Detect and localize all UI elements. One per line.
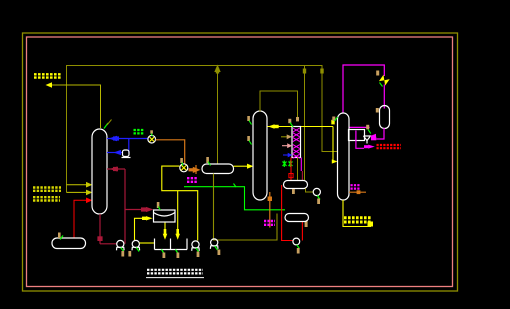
pump P2 (lean liquor pump)	[180, 164, 188, 172]
wire: yellow pump Pb discharge to E1	[135, 218, 147, 240]
text: rich liquor label (magenta)	[351, 185, 361, 188]
wire: olive from coil bottom to drum D2	[297, 158, 299, 181]
tick green on C1 top	[104, 123, 108, 129]
wire: red riser pump P6 to drum D3	[301, 222, 303, 241]
coil condenser (vertical with magenta coil)	[292, 127, 301, 158]
pump P3	[192, 241, 200, 251]
wire: crimson tap to reboiler E1	[125, 209, 147, 211]
wire: yellow loop E1/tank area	[162, 166, 198, 240]
wire: yellow reflux into C2	[268, 126, 334, 128]
valve crimson square	[97, 236, 102, 241]
tick green under tank 2	[176, 250, 179, 254]
wire: orange rich liquor out of C3	[349, 191, 366, 193]
exchanger E2 (horizontal drum)	[202, 164, 234, 174]
tick green on E2 top	[208, 162, 211, 166]
wire: red feed line into C1	[74, 200, 87, 238]
wire: yellow off-gas line from column C1 top	[52, 85, 101, 128]
tick tan coil top left	[288, 119, 291, 123]
tick on olive header x322	[320, 69, 323, 74]
tick tan on C2 left upper	[247, 116, 250, 121]
tick tan on D1	[58, 233, 61, 239]
wire: magenta from C3 to E3	[349, 126, 370, 128]
outer olive border frame	[23, 33, 458, 291]
wire: blue into seal pot	[107, 152, 122, 154]
arrow pink into coil left	[282, 145, 288, 147]
valve yellow bowtie	[379, 75, 390, 86]
wire: yellow feed line 1 into C1	[67, 184, 87, 186]
text: title (white, underlined)	[147, 270, 203, 274]
text: to hot water tank (yellow, bold)	[344, 218, 371, 222]
inner pink border frame	[27, 37, 453, 287]
wire: crimson drain from C1 bottom	[99, 214, 101, 244]
wire: crimson down leg	[124, 169, 126, 244]
text: feed gas label line1 (yellow)	[33, 188, 61, 201]
drum D2 (reflux drum)	[284, 181, 308, 189]
tick on olive header x217	[216, 69, 219, 74]
arrow tan into coil left	[281, 136, 287, 138]
text: product label (red)	[377, 145, 402, 148]
pump P5	[313, 188, 320, 195]
wire: blue cooling water to C1 top	[107, 138, 148, 140]
wire: yellow feed line 2 into C1	[67, 191, 87, 193]
tick green on E1	[158, 207, 160, 211]
tick green on E2 right	[234, 184, 237, 188]
pump Pb	[132, 240, 140, 250]
wire: crimson into drum D2	[301, 171, 303, 180]
wire: magenta valve to vessel V2	[383, 85, 385, 109]
wire: yellow Pb to tank	[140, 242, 155, 244]
tank (three compartment)	[155, 239, 188, 250]
arrow left off-gas	[46, 82, 53, 88]
tick tan on C2 left lower	[247, 136, 250, 141]
wire: yellow drop 2 into tank	[177, 191, 179, 234]
wire: blue drop	[128, 139, 130, 153]
wire: olive drop to exchanger E2	[217, 66, 219, 165]
wire: magenta from coil bottom	[300, 158, 302, 172]
wire: green acid line	[184, 187, 285, 210]
tick tan C3 top	[332, 117, 335, 122]
arrow magenta left into funnel	[370, 134, 376, 139]
exchanger E1 (kettle reboiler)	[154, 210, 176, 222]
wire: olive drop at x304 to drum D2	[304, 66, 306, 181]
wire: yellow drop 1 from E1 bottom	[164, 222, 166, 234]
text: lean liquor label (magenta)	[187, 178, 198, 182]
wire: crimson return from C1 mid	[107, 168, 125, 170]
tick on olive header x304	[303, 69, 306, 74]
tick tan on D3 right	[305, 221, 308, 227]
exchanger E3 (crystallizer box)	[349, 130, 365, 141]
valve green X pair	[283, 161, 293, 168]
wire: orange drain from C2 bottom	[269, 192, 271, 228]
seal pot V1	[122, 150, 131, 158]
tick olive on C1 top	[107, 120, 112, 126]
wire: crimson to pump Pa	[100, 243, 117, 245]
tick green under tank 1	[162, 250, 165, 254]
tick tan on E1	[157, 202, 160, 208]
wire: orange from P2y to pump P2	[156, 140, 185, 164]
wire: yellow C3 bottom outlet	[343, 200, 371, 227]
vessel V2 (small separator)	[380, 106, 390, 129]
pump P6	[293, 238, 300, 245]
text: cooling water label (green)	[134, 130, 145, 133]
arrow up on olive drop	[214, 65, 220, 73]
wire: magenta big loop C3 top	[343, 65, 384, 114]
tick green on D1	[60, 236, 63, 240]
wire: yellow drop to column C3	[332, 127, 333, 162]
wire: olive D2 to pump P5	[306, 189, 314, 193]
drum D3 (lower drum)	[285, 214, 309, 222]
wire: yellow E2 outlet to column C2	[234, 165, 248, 167]
valve orange between P2 and E2	[193, 167, 201, 173]
funnel (white)	[364, 136, 371, 144]
column C1 (absorber)	[92, 129, 107, 214]
tick tan on E2 top	[206, 157, 209, 163]
wire: olive loop E2 to bottom and up	[214, 174, 278, 241]
text: off-gas label (yellow)	[34, 74, 62, 77]
drum D1 (left horizontal tank)	[52, 238, 86, 249]
wire: red from coil bottom to drum D2	[290, 158, 292, 181]
column C2 (regenerator)	[253, 111, 267, 200]
wire: olive C2 top to coil condenser	[260, 91, 298, 120]
wire: magenta V2 bottom to funnel	[376, 128, 384, 139]
valve orange square	[268, 197, 272, 202]
tick tan coil top right	[296, 117, 299, 121]
tick tan under D2	[292, 189, 295, 194]
column C3 (stripper)	[338, 113, 350, 200]
wire: red D2-area down to pump P6	[282, 185, 293, 241]
text: waste water label (magenta)	[264, 221, 275, 225]
wire: olive header line top	[67, 66, 338, 193]
pump P2y (cooling water pump)	[148, 135, 156, 143]
arrow blue into coil left	[283, 154, 288, 156]
pump Pa	[117, 240, 125, 250]
pump P4	[210, 239, 218, 249]
wire: magenta product line	[356, 131, 364, 149]
